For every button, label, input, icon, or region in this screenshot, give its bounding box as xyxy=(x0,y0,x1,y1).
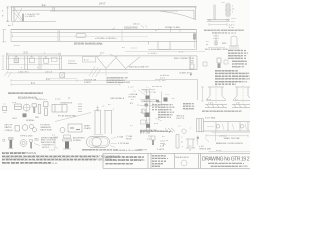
svg-text:x x x: x x x xyxy=(207,99,211,101)
svg-text:x: x xyxy=(113,108,114,110)
svg-text:FOR DETAILS OF xx PARTS: FOR DETAILS OF xx PARTS xyxy=(113,149,142,152)
view V2 left end xyxy=(2,30,11,42)
svg-text:PIN: PIN xyxy=(35,117,39,119)
svg-text:2 off: 2 off xyxy=(160,146,164,148)
svg-text:x: x xyxy=(144,110,145,112)
central cluster dark dot b xyxy=(156,100,159,102)
right cast shoe part xyxy=(231,36,237,46)
beam B1 mid arrows xyxy=(141,25,147,28)
notes streak row 2 xyxy=(2,155,98,157)
pedestal caption streak xyxy=(202,110,242,112)
svg-text:x x: x x xyxy=(108,104,110,106)
svg-text:7'-6 crs: 7'-6 crs xyxy=(68,59,76,62)
left cluster lower row xyxy=(15,124,37,132)
svg-text:PARTS: PARTS xyxy=(5,126,13,129)
adjusting screw F4 xyxy=(54,135,72,149)
truss T3 top chord line a xyxy=(6,55,196,57)
svg-text:AT 3" CRS: AT 3" CRS xyxy=(140,132,151,135)
svg-text:x + x x: x + x x xyxy=(128,87,134,89)
right notes paragraph xyxy=(215,71,251,84)
truss T3 left panel boxes xyxy=(14,58,19,63)
bottom-middle small figs xyxy=(151,135,195,149)
view V2 second line xyxy=(11,31,197,33)
svg-text:x 50 x 6: x 50 x 6 xyxy=(45,72,53,74)
svg-text:x x 10-0 x: x x 10-0 x xyxy=(148,53,157,55)
title box3 stamp xyxy=(175,157,190,166)
title box4 drawing number xyxy=(202,156,250,168)
truss T3 zigzag top markers xyxy=(96,56,117,58)
svg-text:x x: x x xyxy=(206,41,208,43)
columns C1 C2 xyxy=(94,106,113,135)
title block frame xyxy=(103,153,250,168)
truss T3 top chord line b xyxy=(6,58,62,60)
mid cluster guide box xyxy=(52,104,91,133)
bottom-left ring F2 xyxy=(20,140,27,147)
washer note streaks xyxy=(232,60,246,62)
svg-text:NOTE 6 x x: NOTE 6 x x xyxy=(36,99,48,101)
svg-text:+ x: + x xyxy=(133,90,136,92)
svg-text:24'-0": 24'-0" xyxy=(99,2,106,6)
svg-text:SEE DETAIL B: SEE DETAIL B xyxy=(110,97,124,100)
truss T3 apex leader xyxy=(105,69,107,76)
svg-text:10: 10 xyxy=(15,56,17,58)
svg-text:5'-0: 5'-0 xyxy=(24,52,29,55)
svg-text:x: x xyxy=(37,67,38,69)
svg-text:2 off P4: 2 off P4 xyxy=(157,149,165,151)
svg-text:TYPE 2 UNIT: TYPE 2 UNIT xyxy=(20,136,33,138)
pedestal dim vertical xyxy=(201,87,204,101)
notes streak row 4 xyxy=(2,162,51,164)
view V2 divider xyxy=(58,30,60,42)
truss T3 strut texts xyxy=(84,79,96,85)
central cluster annotations texts xyxy=(110,90,194,152)
detail D1 post xyxy=(213,5,215,21)
svg-text:xx x: xx x xyxy=(162,80,166,82)
detail D1 dim line xyxy=(209,23,227,26)
right bolt assembly figure xyxy=(205,34,243,60)
svg-text:x: x xyxy=(190,127,191,129)
truss T3 small circle marker xyxy=(83,57,96,63)
svg-text:+ x: + x xyxy=(178,126,181,128)
svg-text:SMALL TEXT AB: SMALL TEXT AB xyxy=(224,137,240,140)
svg-text:2" DIA: 2" DIA xyxy=(117,136,124,139)
text streaks overlay (simulated scanned text) xyxy=(2,30,248,166)
svg-text:BOLT ASSEMBLY AT A: BOLT ASSEMBLY AT A xyxy=(205,48,228,51)
beam B1 left bracket dark post xyxy=(22,14,23,22)
svg-text:6"x3" RAIL: 6"x3" RAIL xyxy=(205,116,216,119)
svg-text:DETAIL OF TOP GUIDE BRACKET FI: DETAIL OF TOP GUIDE BRACKET FIX xyxy=(204,29,243,32)
svg-text:xx: xx xyxy=(206,44,208,46)
truss T3 right end dark dot xyxy=(190,74,192,76)
truss T3 mid texts xyxy=(68,59,149,68)
view V2 inner box xyxy=(76,34,86,38)
svg-text:x x x x: x x x x xyxy=(131,47,137,49)
bottom-left bolt F1 xyxy=(9,138,14,149)
truss T3 dim texts xyxy=(31,79,50,85)
truss T3 left panel verticals xyxy=(6,56,61,70)
right lower small parts row xyxy=(203,58,244,68)
svg-text:CHECK DIM: CHECK DIM xyxy=(199,149,211,151)
truss T3 left panel text specks xyxy=(15,56,47,69)
second channel rail caption streak xyxy=(74,43,103,45)
central cluster dark dot d xyxy=(146,124,150,128)
beam B1 upper flange pair line a xyxy=(12,9,195,11)
truss T3 left end small box with X xyxy=(60,73,65,78)
svg-text:x x: x x xyxy=(172,98,174,100)
svg-text:x x: x x xyxy=(235,99,237,101)
central cluster leader lines xyxy=(138,90,162,122)
svg-text:PLATE: PLATE xyxy=(84,127,91,130)
mid bracing note streaks xyxy=(107,78,125,83)
cluster text column streaks xyxy=(140,104,195,132)
svg-text:of braces: of braces xyxy=(68,62,78,65)
svg-text:10: 10 xyxy=(45,57,47,59)
title box1 customer text xyxy=(105,156,144,166)
svg-text:x x: x x xyxy=(222,2,225,4)
svg-text:DRAWING No GTR 19 2: DRAWING No GTR 19 2 xyxy=(202,156,250,162)
view V2 top arrows and ticks xyxy=(112,27,180,32)
notes streak row 3 xyxy=(2,159,96,161)
svg-text:100x50 RHS: 100x50 RHS xyxy=(124,27,138,30)
svg-text:GUIDE BOX: GUIDE BOX xyxy=(60,102,73,104)
svg-text:x x: x x xyxy=(131,99,133,101)
view V2 bottom edge xyxy=(11,40,197,42)
central cluster diagonal dashes xyxy=(165,128,175,133)
beam B1 right haunch curve xyxy=(160,11,196,19)
svg-text:x: x xyxy=(232,12,233,14)
erection notes streaks xyxy=(215,71,248,84)
svg-text:xx: xx xyxy=(181,142,183,144)
detail D1 centre line xyxy=(227,3,229,20)
mid-bottom callout column xyxy=(126,135,133,145)
central cluster dark dot e xyxy=(164,98,168,102)
view V2 texts xyxy=(74,26,180,45)
svg-text:x 150 x 90 x: x 150 x 90 x xyxy=(18,72,29,74)
notes streak row 1 xyxy=(2,152,26,154)
pedestal P1 xyxy=(205,85,227,108)
svg-text:NUT: NUT xyxy=(13,118,18,120)
svg-text:75x50x8 UA: 75x50x8 UA xyxy=(84,79,96,82)
view V2 left inner tick xyxy=(11,34,13,37)
svg-text:x x x x: x x x x xyxy=(14,45,20,47)
beam B1 below-left tick xyxy=(8,23,12,26)
beam B1 upper flange pair line b xyxy=(50,10,178,12)
svg-text:x 12 x: x 12 x xyxy=(208,103,213,105)
pedestal P2 xyxy=(232,85,250,108)
truss T3 chord gap texts xyxy=(18,72,53,74)
svg-text:x 12: x 12 xyxy=(236,103,240,105)
view V2 lower line right xyxy=(125,51,205,53)
beam B1 left bracket bottom line xyxy=(12,20,56,22)
cast shoe text streaks xyxy=(228,51,248,67)
beam B1 left end plates xyxy=(12,7,14,22)
obround slotted hole detail xyxy=(86,136,109,147)
central cluster dark dot f xyxy=(145,104,148,107)
central cluster vertical lines xyxy=(140,80,198,131)
beam B1 left dim texts xyxy=(2,10,4,17)
svg-text:150x150x10 EA TYP: 150x150x10 EA TYP xyxy=(129,65,150,68)
rail R left end cap xyxy=(197,119,204,132)
truss T3 right texts xyxy=(174,51,194,74)
truss T3 bottom chord line a xyxy=(6,69,197,71)
svg-text:x x x x: x x x x xyxy=(49,149,56,151)
svg-text:3": 3" xyxy=(2,16,4,18)
svg-text:x x: x x xyxy=(162,136,164,138)
d1 caption streaks xyxy=(204,29,244,31)
svg-text:THE BIG BOX: THE BIG BOX xyxy=(175,157,190,159)
beam B1 top flange line xyxy=(11,6,197,8)
detail D1 top-right guide bracket xyxy=(204,2,243,35)
beam B1 left dim line xyxy=(6,7,10,22)
truss T3 bottom chord line b xyxy=(6,72,128,74)
leader marks left of callouts xyxy=(198,136,210,146)
rail R body xyxy=(204,122,251,138)
svg-text:x xx: x xx xyxy=(147,138,150,140)
beam B1 bracket leader notes xyxy=(25,14,40,18)
central cluster speck extra rows xyxy=(128,86,162,127)
svg-text:10: 10 xyxy=(31,56,33,58)
truss T3 sub hatch diagonals xyxy=(89,67,101,78)
svg-text:xx: xx xyxy=(232,9,234,11)
svg-text:FW TYP: FW TYP xyxy=(176,118,184,120)
svg-text:KEEP: KEEP xyxy=(84,126,90,128)
svg-text:SPRING: SPRING xyxy=(26,120,35,122)
plan caption streak xyxy=(8,92,43,94)
detail D1 caption xyxy=(204,29,243,35)
svg-text:xx: xx xyxy=(189,149,191,151)
svg-text:x: x xyxy=(154,92,155,94)
title box2 drawn/checked text xyxy=(152,155,167,168)
bottom-left bolt F3 xyxy=(30,140,41,149)
central cluster dark dot a xyxy=(146,96,150,99)
svg-text:FIXING CLEAT: FIXING CLEAT xyxy=(165,26,180,29)
obround caption streak xyxy=(82,149,112,151)
central cluster cross ticks xyxy=(140,92,160,105)
svg-text:MEASURE LOOSE LENGTH: MEASURE LOOSE LENGTH xyxy=(216,142,244,145)
truss T3 lower faint line xyxy=(50,77,77,79)
svg-text:x: x xyxy=(21,67,22,69)
svg-text:EACH SIDE: EACH SIDE xyxy=(41,128,53,131)
title box1 streaks xyxy=(106,157,145,164)
svg-text:x x: x x xyxy=(137,105,139,107)
note block mid text xyxy=(107,77,131,85)
view V2 lower edge right xyxy=(148,30,196,50)
central cluster small boxes xyxy=(142,109,146,113)
svg-text:2 REQD: 2 REQD xyxy=(5,130,14,132)
truss T3 left dim vertical xyxy=(2,56,5,70)
beam B1 splice ticks xyxy=(53,7,55,11)
svg-text:EACH BOLT AS: EACH BOLT AS xyxy=(41,141,56,144)
truss T3 caption xyxy=(8,92,71,101)
truss T3 dim line upper xyxy=(11,79,160,82)
svg-text:8 8: 8 8 xyxy=(130,103,133,105)
view V2 step sub-box xyxy=(148,41,170,49)
beam B1 top tick mark xyxy=(43,5,45,7)
obround leader marks xyxy=(110,137,117,148)
svg-text:x x: x x xyxy=(122,47,125,49)
bottom-left text box TR1 xyxy=(41,136,58,149)
truss T3 left panel inner hline xyxy=(9,64,60,66)
central cluster dark dot c xyxy=(145,113,150,117)
svg-text:xx x xx x xx: xx x xx x xx xyxy=(152,86,162,88)
beam B1 left bracket X diagonals xyxy=(14,8,23,22)
truss T3 right end posts xyxy=(190,56,197,70)
truss T3 web zigzag xyxy=(97,57,140,69)
central cluster circle xyxy=(182,129,186,133)
notes paragraph bottom-left xyxy=(2,149,142,165)
obround caption xyxy=(82,149,119,152)
svg-text:PACK 6 x: PACK 6 x xyxy=(143,100,153,103)
central cluster centreline xyxy=(149,88,151,132)
svg-text:xx: xx xyxy=(166,140,168,142)
svg-text:x: x xyxy=(182,136,183,138)
truss T3 dim line lower xyxy=(11,83,120,86)
svg-text:FIT AT EACH END: FIT AT EACH END xyxy=(58,115,77,118)
right lower callouts above title block xyxy=(199,137,243,152)
truss T3 right end text rows xyxy=(160,75,169,82)
svg-text:END CONNECTION: END CONNECTION xyxy=(174,58,194,60)
svg-text:HOLE: HOLE xyxy=(126,138,132,140)
V2 area small texts xyxy=(100,44,137,49)
svg-text:SET OF: SET OF xyxy=(5,125,14,127)
svg-text:CLEAT 10 PL: CLEAT 10 PL xyxy=(179,71,193,74)
svg-text:SCREW: SCREW xyxy=(73,140,81,142)
line above title block xyxy=(208,151,250,153)
svg-text:x IN LINE x 6 HOLES x: x IN LINE x 6 HOLES x xyxy=(95,38,117,40)
svg-text:x 3/4 DIA: x 3/4 DIA xyxy=(129,93,138,96)
central cluster speck rows xyxy=(130,87,191,130)
detail D1 base plate xyxy=(207,20,230,22)
svg-text:STRUT: STRUT xyxy=(84,82,92,84)
detail D1 bolt stack xyxy=(225,4,231,16)
pedestal caption xyxy=(202,110,241,113)
title box2 streaks xyxy=(152,156,168,166)
truss T3 top dim line 5400 xyxy=(6,53,60,56)
left cluster small parts xyxy=(3,102,48,117)
svg-text:x x: x x xyxy=(189,146,192,148)
svg-text:100 crs: 100 crs xyxy=(133,23,141,26)
beam B1 top dimension text xyxy=(42,2,106,7)
view V2 top edge xyxy=(11,29,197,31)
svg-text:x x x: x x x xyxy=(154,123,158,125)
view V2 mid faint line xyxy=(11,36,148,38)
beam B1 right end plate xyxy=(194,7,196,20)
title box4 subtitle streaks xyxy=(208,164,244,167)
svg-text:6 x 3/8 PL: 6 x 3/8 PL xyxy=(25,16,36,18)
svg-text:x: x xyxy=(232,6,233,8)
